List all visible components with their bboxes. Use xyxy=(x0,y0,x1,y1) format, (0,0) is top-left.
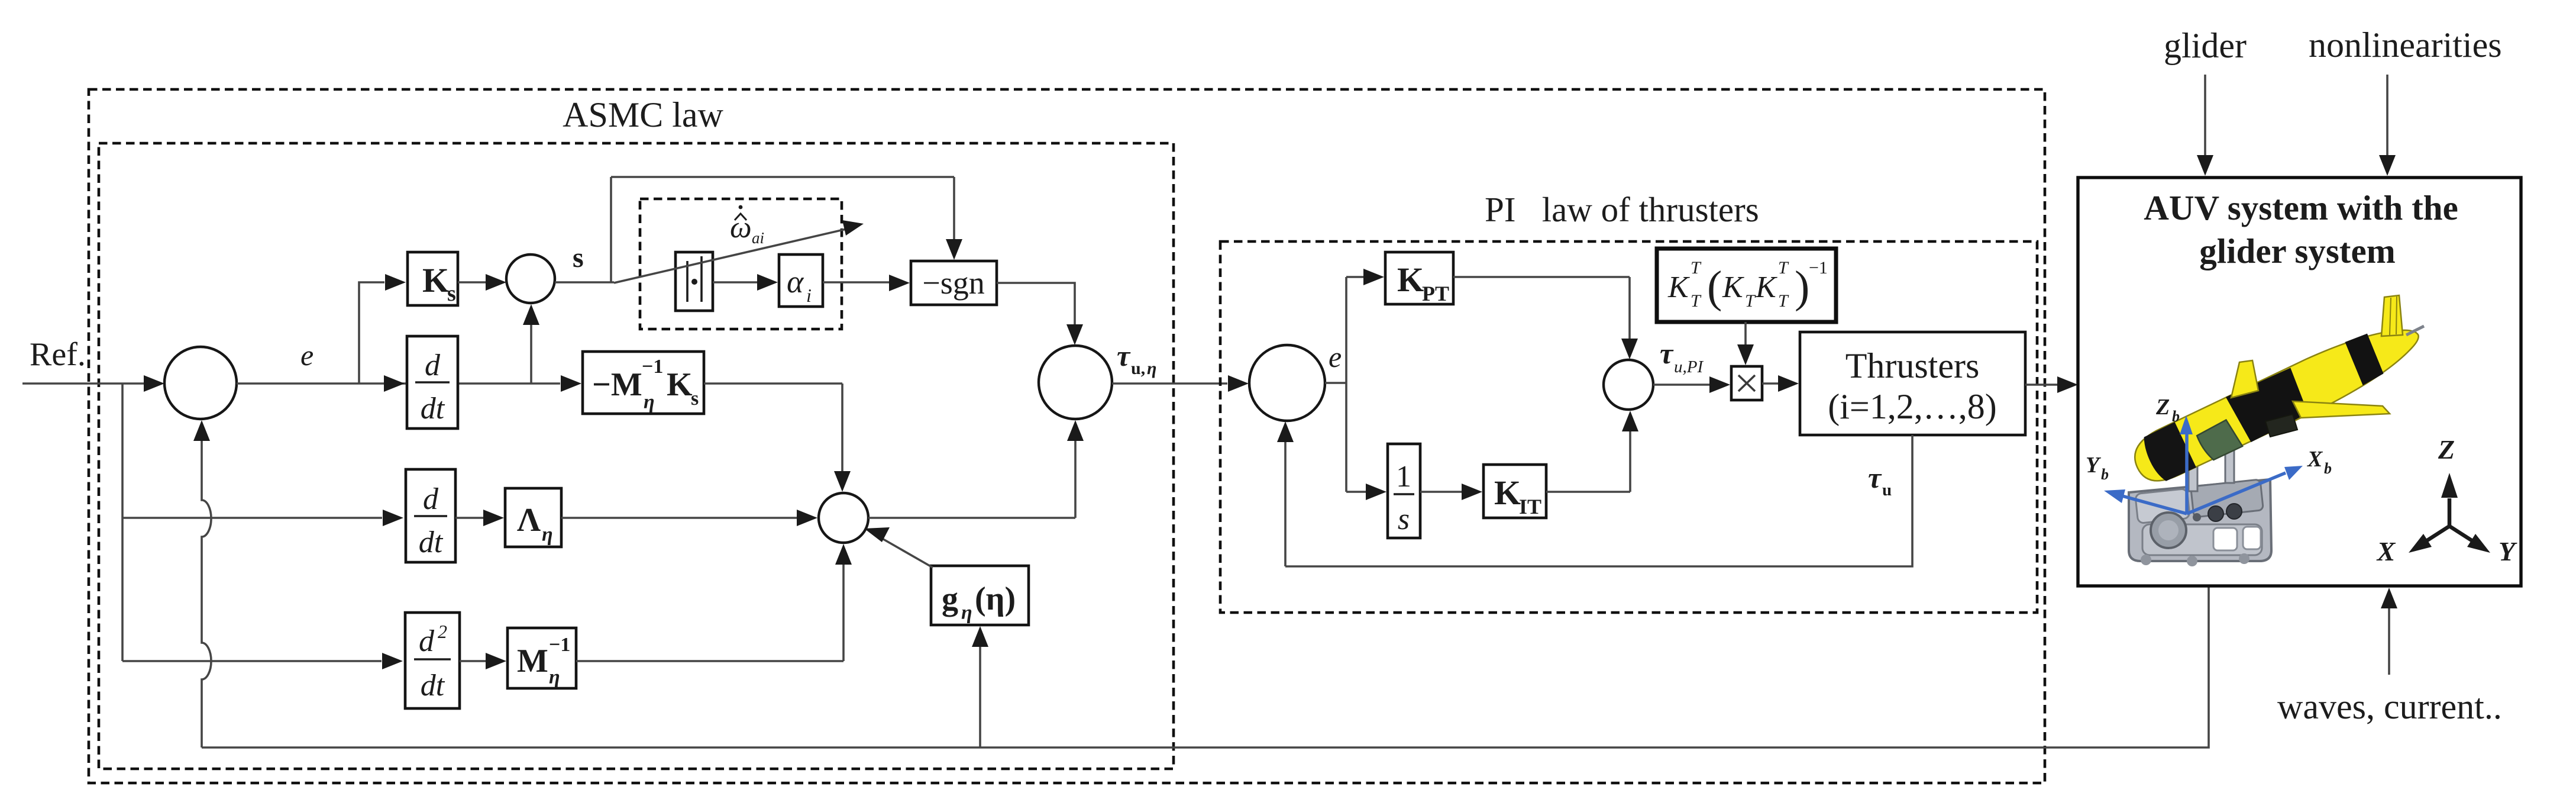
dashed adaptation box xyxy=(640,199,842,329)
arrow into d/dt row1 xyxy=(384,375,405,392)
wire branch to KPT xyxy=(1346,276,1363,278)
svg-text:Y: Y xyxy=(2499,536,2517,566)
dark ballast under body xyxy=(2265,414,2297,437)
svg-text:K: K xyxy=(1397,260,1424,299)
svg-text:T: T xyxy=(1778,258,1789,278)
label e PI xyxy=(1329,340,1342,373)
arrow into Minv xyxy=(486,653,506,669)
summing junction S4 xyxy=(1604,360,1653,410)
AUV system box xyxy=(2078,178,2521,586)
earth axes black xyxy=(2426,498,2472,541)
arrow into small summer left xyxy=(797,510,817,526)
label glider xyxy=(2164,26,2247,65)
arrow into multiplier top xyxy=(1737,344,1754,365)
svg-text:η: η xyxy=(1147,359,1156,378)
svg-text:s: s xyxy=(691,388,699,410)
wire -M output down to small summer xyxy=(704,384,842,472)
wire S4 to multiplier xyxy=(1653,384,1709,386)
glider right wing xyxy=(2293,401,2390,418)
label ASMC law xyxy=(563,95,723,134)
svg-text:g: g xyxy=(942,581,958,617)
block Ks xyxy=(408,252,458,306)
svg-text:d: d xyxy=(419,624,435,658)
label Ref. xyxy=(30,336,86,373)
svg-text:u,: u, xyxy=(1131,359,1145,378)
svg-text:−M: −M xyxy=(592,366,642,403)
arrow into -M block xyxy=(561,375,581,392)
block Lambda eta xyxy=(505,488,561,547)
glider antenna xyxy=(2406,326,2424,335)
svg-text:dt: dt xyxy=(421,669,445,703)
block g eta xyxy=(931,566,1029,625)
svg-text:T: T xyxy=(1745,291,1756,311)
body axes blue xyxy=(2122,433,2286,514)
PI dashed box xyxy=(1220,241,2037,613)
svg-text:s: s xyxy=(1398,502,1410,536)
arrow glider into AUV top xyxy=(2197,155,2213,176)
wire KIT up into S4 bottom xyxy=(1546,431,1630,492)
svg-text:s: s xyxy=(573,242,584,273)
svg-text:1: 1 xyxy=(1396,460,1411,494)
block absolute value xyxy=(675,252,713,311)
svg-text:−1: −1 xyxy=(1809,258,1828,278)
arrow diagonal into small summer xyxy=(864,527,890,542)
wire 1/s to KIT xyxy=(1420,491,1462,493)
svg-text:Λ: Λ xyxy=(517,502,541,539)
wire Ref input xyxy=(22,382,147,385)
arrow into Ks xyxy=(385,274,406,291)
block KPT xyxy=(1385,252,1453,305)
wire main feedback bottom run xyxy=(202,586,2209,747)
svg-text:PT: PT xyxy=(1422,282,1449,305)
wire d/dt up into S2 xyxy=(530,323,532,384)
label e error signal xyxy=(300,339,313,372)
svg-text:e: e xyxy=(300,339,313,372)
summing junction S1 xyxy=(164,347,237,419)
svg-text:−1: −1 xyxy=(549,634,570,656)
labels body axes xyxy=(2086,395,2332,483)
wire junction up xyxy=(610,177,612,282)
wire nonlinearities arrow xyxy=(2386,75,2388,155)
svg-text:X: X xyxy=(2376,536,2396,566)
block KIT xyxy=(1483,465,1546,518)
label tau u eta xyxy=(1117,339,1156,378)
wire Thrusters output to AUV xyxy=(2025,384,2057,386)
svg-text:waves, current..: waves, current.. xyxy=(2277,687,2502,726)
svg-text:M: M xyxy=(517,643,548,679)
wire row3 stub xyxy=(122,660,382,662)
arrow into KPT xyxy=(1363,269,1384,285)
wire alpha to -sgn xyxy=(823,281,889,283)
svg-text:b: b xyxy=(2101,466,2109,483)
wire KT block down into multiplier xyxy=(1744,322,1747,344)
wire Ks to S2 xyxy=(458,281,486,283)
wire abs to alpha xyxy=(713,281,757,283)
svg-text:K: K xyxy=(1755,270,1777,304)
arrow into alpha xyxy=(757,274,778,291)
arrow into g bottom xyxy=(972,626,988,647)
svg-text:K: K xyxy=(1494,473,1521,512)
svg-text:dt: dt xyxy=(421,392,445,426)
block M eta inverse xyxy=(508,628,576,688)
arrow into S3 bottom xyxy=(1277,421,1294,442)
svg-text:T: T xyxy=(1778,291,1789,311)
wire S1 output e xyxy=(237,382,560,385)
svg-text:−sgn: −sgn xyxy=(922,265,984,301)
wire row2 stub xyxy=(122,517,382,519)
arrow into AUV box xyxy=(2057,376,2078,393)
svg-text:IT: IT xyxy=(1519,495,1541,518)
svg-text:ai: ai xyxy=(752,229,764,247)
svg-text:): ) xyxy=(1795,262,1809,312)
summing junction big S xyxy=(1039,346,1112,419)
svg-text:d: d xyxy=(423,482,439,516)
wire down into -sgn top xyxy=(953,177,955,239)
arrow into -sgn left xyxy=(889,275,910,291)
arrow into S4 top xyxy=(1621,339,1638,359)
svg-text:Y: Y xyxy=(2086,453,2102,478)
svg-text:Z: Z xyxy=(2438,434,2455,465)
wire feedback up into g bottom xyxy=(979,646,981,747)
svg-text:α: α xyxy=(787,264,804,299)
wire d/dt2 to Lambda xyxy=(455,517,483,519)
svg-text:e: e xyxy=(1329,340,1342,373)
svg-text:K: K xyxy=(422,261,449,299)
block alpha i xyxy=(779,254,823,307)
outer dashed boundary box xyxy=(89,89,2045,783)
wire Lambda to small summer xyxy=(561,517,797,519)
svg-text:PI law of thrusters: PI law of thrusters xyxy=(1485,190,1759,229)
block d/dt row1 xyxy=(407,336,458,428)
svg-text:η: η xyxy=(644,391,655,413)
label omega hat dot ai xyxy=(730,205,764,247)
ROV frame undercarriage xyxy=(2129,443,2271,566)
arrow into summer S1 xyxy=(144,375,164,392)
svg-text:dt: dt xyxy=(419,526,444,559)
wire branch to 1/s xyxy=(1346,491,1366,493)
wire g diagonal into small summer xyxy=(880,537,933,568)
svg-text:b: b xyxy=(2324,460,2332,477)
diagonal adaptation arrow xyxy=(614,220,864,283)
arrow feedback into S1 bottom xyxy=(193,420,210,441)
arrow into S2 bottom xyxy=(523,304,539,325)
arrow into -sgn top xyxy=(946,239,962,260)
label s sliding surface xyxy=(573,242,584,273)
arrow into summer S2 xyxy=(486,274,506,291)
wire branch from Ref down to derivative rows xyxy=(121,384,124,661)
wire big summer output to PI section xyxy=(1112,382,1227,385)
svg-text:T: T xyxy=(1691,291,1702,311)
svg-text:X: X xyxy=(2307,447,2323,472)
arrow into Lambda xyxy=(483,510,504,526)
glider yellow body xyxy=(2126,311,2429,491)
block -sgn xyxy=(911,261,997,305)
block d/dt row2 xyxy=(406,469,455,562)
summing junction S3 xyxy=(1249,345,1325,421)
svg-text:Thrusters: Thrusters xyxy=(1845,346,1980,385)
arrow into d2/dt row3 xyxy=(382,653,403,669)
wire tau u feedback to S3 xyxy=(1285,435,1912,566)
wire top run to -sgn xyxy=(611,176,954,178)
svg-text:τ: τ xyxy=(1868,461,1882,494)
wire glider arrow xyxy=(2204,75,2206,155)
feedback line bottom of ASMC with hops xyxy=(202,441,211,747)
svg-text:Ref.: Ref. xyxy=(30,336,86,373)
svg-text:T: T xyxy=(1691,258,1702,278)
svg-text:b: b xyxy=(2172,408,2180,425)
label AUV system title xyxy=(2144,188,2458,270)
svg-text:K: K xyxy=(667,366,693,403)
svg-text:glider system: glider system xyxy=(2199,231,2396,270)
svg-text:(i=1,2,…,8): (i=1,2,…,8) xyxy=(1828,387,1996,426)
arrow into big summer bottom xyxy=(1067,420,1084,441)
arrow nonlinearities into AUV top xyxy=(2379,155,2396,176)
wire S2 output to junction xyxy=(555,281,614,283)
arrow into 1/s xyxy=(1366,484,1386,500)
svg-text:(η): (η) xyxy=(975,581,1016,617)
svg-text:s: s xyxy=(447,281,456,306)
summing junction small S xyxy=(819,493,868,543)
wire Minv output up into small summer bottom xyxy=(576,563,843,661)
block KT pseudoinverse xyxy=(1657,249,1836,322)
wire up-branch to Ks xyxy=(359,282,384,384)
wire multiplier to Thrusters xyxy=(1762,382,1778,385)
AUV glider illustration xyxy=(2086,295,2517,566)
summing junction S2 xyxy=(506,254,555,303)
svg-text:nonlinearities: nonlinearities xyxy=(2309,25,2502,65)
arrow into small summer bottom xyxy=(835,544,852,565)
arrow into multiplier xyxy=(1709,376,1730,393)
svg-text:ω: ω xyxy=(730,211,752,244)
wire d2dt to Minv xyxy=(460,660,486,662)
block 1/s integrator xyxy=(1388,444,1420,538)
svg-text:Z: Z xyxy=(2155,395,2170,420)
label tau u PI xyxy=(1660,337,1704,376)
wire KPT output down to S4 top xyxy=(1453,277,1630,339)
svg-text:u: u xyxy=(1882,481,1892,500)
wire -sgn output to big summer xyxy=(997,283,1075,325)
svg-text:η: η xyxy=(542,524,553,546)
labels earth axes xyxy=(2376,434,2517,566)
block Thrusters xyxy=(1800,332,2025,435)
label nonlinearities xyxy=(2309,25,2502,65)
svg-text:d: d xyxy=(425,349,441,382)
wire S3 output branch xyxy=(1325,277,1346,492)
svg-text:τ: τ xyxy=(1117,339,1131,372)
arrow into KIT xyxy=(1462,484,1482,500)
label PI law of thrusters xyxy=(1485,190,1759,229)
svg-text:AUV system with the: AUV system with the xyxy=(2144,188,2458,227)
inner ASMC dashed box xyxy=(99,143,1174,769)
svg-text:K: K xyxy=(1667,270,1690,304)
arrow into S4 bottom xyxy=(1622,411,1638,431)
svg-text:η: η xyxy=(549,666,560,688)
svg-text:u,PI: u,PI xyxy=(1674,357,1704,376)
block -Minv Ks xyxy=(583,352,704,414)
svg-text:η: η xyxy=(961,602,972,624)
svg-text:glider: glider xyxy=(2164,26,2247,65)
svg-text:K: K xyxy=(1722,270,1744,304)
arrow into big summer top xyxy=(1066,324,1083,345)
svg-text:−1: −1 xyxy=(642,356,663,378)
svg-text:i: i xyxy=(806,285,812,306)
arrow into small summer top xyxy=(834,471,851,492)
arrow into summer S3 xyxy=(1228,375,1249,392)
label tau u xyxy=(1868,461,1892,500)
wire small summer to big summer xyxy=(868,440,1075,518)
wire waves arrow xyxy=(2388,608,2390,675)
arrow waves into AUV bottom xyxy=(2381,588,2397,608)
arrow into Thrusters xyxy=(1778,375,1799,392)
glider tail fin xyxy=(2381,295,2403,336)
label waves current xyxy=(2277,687,2502,726)
svg-text:2: 2 xyxy=(438,621,447,642)
multiplier X box xyxy=(1731,366,1762,400)
arrow into d/dt row2 xyxy=(383,510,403,526)
svg-text:τ: τ xyxy=(1660,337,1674,370)
block d2/dt row3 xyxy=(405,613,460,708)
svg-text:(: ( xyxy=(1707,262,1722,312)
glider left wing xyxy=(2231,360,2258,398)
svg-text:ASMC law: ASMC law xyxy=(563,95,723,134)
